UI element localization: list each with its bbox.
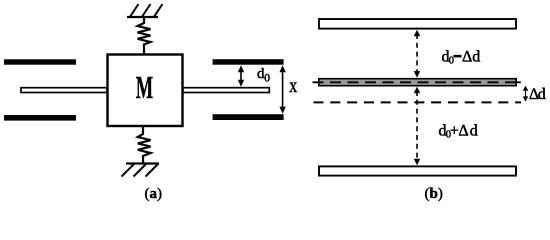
svg-text:0: 0 (449, 56, 454, 67)
svg-text:(b): (b) (425, 186, 443, 202)
svg-text:x: x (289, 74, 297, 96)
svg-text:0: 0 (264, 72, 270, 84)
svg-text:M: M (136, 70, 153, 106)
svg-text:Δ: Δ (462, 49, 472, 66)
svg-text:d: d (538, 86, 546, 103)
svg-text:(a): (a) (145, 186, 163, 202)
svg-text:d: d (470, 123, 478, 140)
svg-text:Δ: Δ (458, 123, 468, 140)
svg-text:d: d (472, 49, 480, 66)
